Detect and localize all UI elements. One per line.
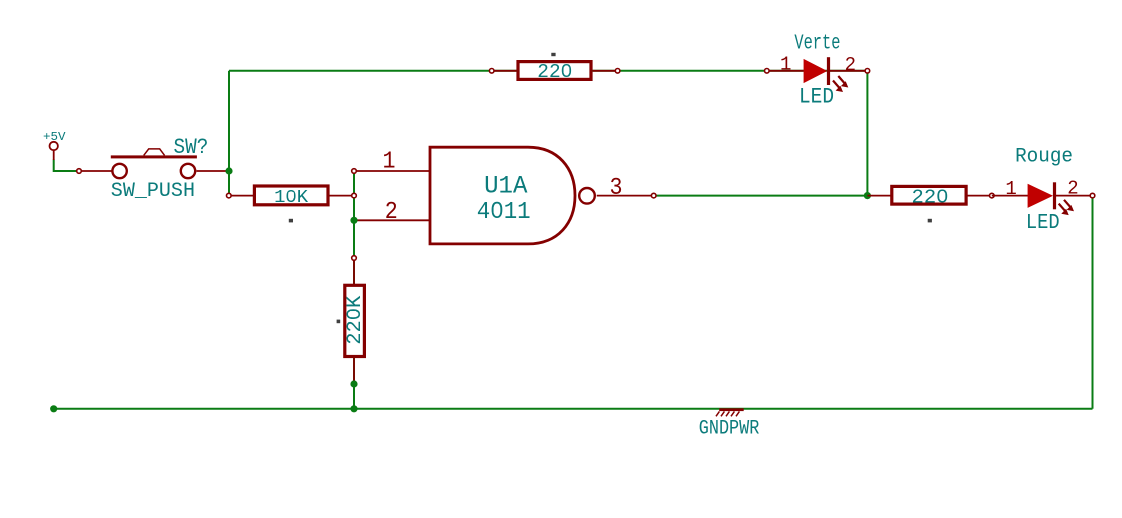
svg-text:1: 1 (780, 53, 791, 75)
pin 1 end circle (352, 169, 357, 174)
pin 2 lead (353, 358, 355, 382)
switch pin 1 lead (82, 170, 112, 172)
ground hatching (716, 411, 739, 416)
junction at gate pin 2 node (350, 217, 357, 224)
ground GNDPWR (699, 408, 760, 440)
svg-text:+5V: +5V (43, 130, 66, 144)
emission arrows (1059, 200, 1074, 215)
switch SW? (SW_PUSH) (77, 134, 229, 203)
switch contact 2 (181, 164, 195, 178)
+5V circle (50, 142, 58, 150)
junction at switch output node (225, 167, 232, 174)
svg-text:SW_PUSH: SW_PUSH (111, 180, 195, 203)
junction 220K to ground rail (350, 405, 357, 412)
gate body (430, 147, 575, 244)
node ground rail left end (50, 405, 57, 412)
pin 1 end circle (227, 193, 232, 198)
+5V pin stem (53, 150, 55, 160)
emission arrows (833, 76, 848, 92)
svg-text:2: 2 (385, 199, 398, 226)
switch pin 2 lead (197, 170, 230, 172)
resistor 220 (right, to LED Rouge) (867, 186, 994, 222)
junction at output node (864, 192, 871, 199)
LED Verte (765, 32, 870, 109)
wire bottom ground rail (54, 408, 1093, 410)
diode triangle (804, 59, 828, 83)
diode triangle (1028, 184, 1053, 208)
cathode bar (827, 57, 830, 85)
svg-text:SW?: SW? (174, 134, 209, 160)
svg-text:1: 1 (1005, 178, 1016, 200)
hidden reference dot (928, 219, 932, 223)
pin 1 lead (867, 195, 891, 197)
wire LED Verte cathode vertical to output node (866, 71, 868, 196)
pin 2 end circle (352, 193, 357, 198)
LED Rouge (992, 146, 1095, 236)
wire top rail from node SW to LED Verte cathode corner (229, 70, 867, 72)
pin 2 end circle (990, 193, 995, 198)
pin 2 lead (356, 219, 429, 221)
svg-text:Verte: Verte (794, 32, 840, 55)
svg-text:GNDPWR: GNDPWR (699, 418, 760, 441)
pin 2 lead (593, 70, 618, 72)
svg-text:LED: LED (799, 85, 834, 110)
hidden reference dot (289, 219, 293, 223)
wire middle vertical from gate pin 1 through 220K to ground rail (353, 171, 355, 409)
nand gate U1A 4011 (352, 147, 656, 244)
pin 2 end circle (615, 69, 620, 74)
inversion bubble (579, 188, 595, 204)
svg-text:3: 3 (610, 175, 623, 202)
pin 2 lead (1056, 195, 1093, 197)
switch contact 1 (112, 164, 126, 178)
svg-text:LED: LED (1026, 211, 1060, 235)
resistor 220K (337, 256, 367, 382)
svg-text:1: 1 (383, 148, 396, 175)
ground bar (719, 408, 744, 411)
wire LED Rouge cathode vertical to ground rail (1092, 196, 1094, 409)
junction at 220K bottom pin (350, 380, 357, 387)
pin 1 end circle (489, 69, 494, 74)
resistor body (345, 285, 365, 356)
power symbol +5V (43, 130, 66, 160)
switch actuator bar (111, 155, 197, 158)
resistor body (892, 186, 966, 204)
pin 1 lead (992, 195, 1028, 197)
resistor body (254, 186, 328, 205)
pin 1 lead (767, 70, 804, 72)
svg-text:220K: 220K (344, 295, 367, 345)
hidden reference dot (337, 320, 341, 324)
pin 1 end circle (352, 256, 357, 261)
svg-text:2: 2 (845, 54, 856, 76)
pin 1 lead (356, 170, 429, 172)
pin 3 lead (597, 195, 652, 197)
resistor body (518, 62, 591, 80)
pin 3 end circle (651, 193, 656, 198)
switch pin 1 end circle (77, 169, 82, 174)
switch button cap (144, 149, 165, 156)
resistor 10K (227, 186, 357, 222)
pin 2 end circle (865, 69, 870, 74)
pin 2 end circle (1090, 193, 1095, 198)
svg-text:Rouge: Rouge (1015, 146, 1073, 169)
pin 1 lead (229, 195, 254, 197)
hidden reference dot (551, 53, 555, 56)
wire +5V to switch pin 1 (54, 160, 79, 172)
pin 2 lead (967, 195, 992, 197)
pin 1 lead (492, 70, 517, 72)
wire vertical from top rail down to 10K left pin (228, 71, 230, 196)
pin 2 lead (328, 195, 354, 197)
svg-text:U1A: U1A (484, 171, 527, 200)
cathode bar (1053, 182, 1056, 209)
pin 1 end circle (765, 69, 770, 74)
resistor 220 (top, to LED Verte) (489, 53, 619, 83)
svg-text:4011: 4011 (477, 199, 531, 226)
pin 2 lead (830, 70, 867, 72)
svg-text:2: 2 (1067, 178, 1078, 200)
wire gate output pin 3 to output node (654, 195, 868, 197)
pin 1 lead (353, 261, 355, 285)
